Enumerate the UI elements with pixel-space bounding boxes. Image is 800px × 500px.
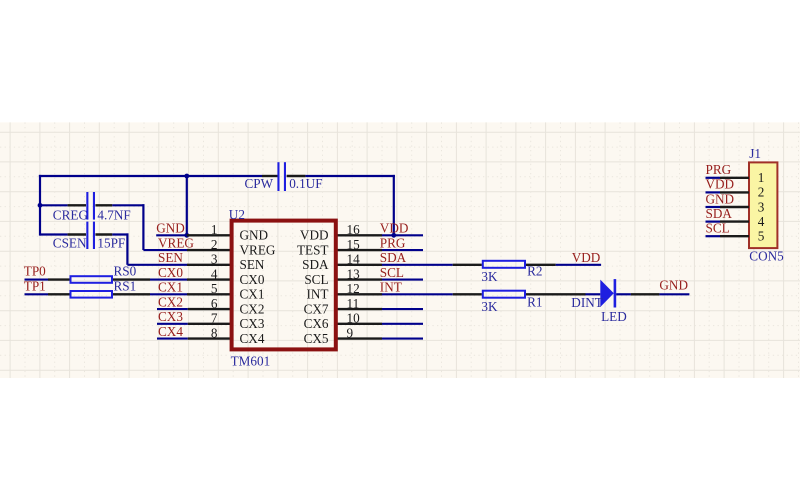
wire right row VDD: [382, 234, 423, 236]
svg-text:15: 15: [347, 237, 361, 252]
wire J1 GND stub: [706, 206, 721, 208]
svg-text:3: 3: [211, 252, 218, 267]
wire CX2 stub: [157, 308, 188, 310]
connector J1 CON5 body: [749, 162, 777, 248]
svg-text:2: 2: [758, 185, 765, 200]
svg-text:CX4: CX4: [240, 331, 265, 346]
svg-text:TP1: TP1: [24, 279, 46, 294]
svg-text:CX2: CX2: [158, 294, 183, 309]
svg-text:1: 1: [758, 170, 765, 185]
svg-text:SCL: SCL: [380, 265, 404, 280]
capacitor CSEN 15PF: [86, 222, 95, 249]
svg-text:VDD: VDD: [572, 250, 601, 265]
svg-text:3K: 3K: [481, 269, 498, 284]
svg-text:GND: GND: [240, 228, 269, 243]
U2 pin names right column: [297, 228, 329, 346]
wire TP1 stub: [25, 293, 49, 295]
svg-text:INT: INT: [307, 287, 329, 302]
wire right row CX5 stub: [382, 337, 423, 339]
svg-text:GND: GND: [706, 191, 735, 206]
svg-text:VDD: VDD: [380, 221, 409, 236]
wire J1 pin 4: [720, 220, 749, 222]
svg-text:RS0: RS0: [114, 264, 137, 279]
wire GND net top-left horizontal: [39, 175, 262, 177]
wire J1 SDA stub: [706, 221, 721, 223]
svg-text:11: 11: [347, 296, 360, 311]
svg-text:6: 6: [211, 296, 218, 311]
wire J1 VDD stub: [706, 191, 721, 193]
svg-text:SEN: SEN: [158, 250, 183, 265]
wire R2 left pin: [453, 264, 482, 266]
junction dot left vertical CREG: [38, 203, 43, 208]
svg-text:TEST: TEST: [297, 242, 329, 257]
svg-text:0.1UF: 0.1UF: [289, 176, 322, 191]
wire J1 PRG stub: [706, 177, 721, 179]
op IC U2 TM601 body: [232, 221, 336, 350]
svg-text:CSEN: CSEN: [53, 235, 87, 250]
wire CREG row left: [40, 204, 68, 206]
svg-text:DINT: DINT: [571, 295, 603, 310]
svg-text:CX0: CX0: [158, 265, 183, 280]
wire CSEN row left: [40, 233, 68, 235]
svg-text:GND: GND: [156, 221, 185, 236]
svg-text:SDA: SDA: [302, 257, 329, 272]
wire RS0 left pin: [48, 278, 70, 280]
wire LED right pin: [631, 293, 660, 295]
wire RS1 left pin: [48, 293, 70, 295]
svg-text:TP0: TP0: [24, 264, 46, 279]
wire VDD net right of R2: [556, 264, 601, 266]
resistor RS0: [71, 276, 113, 283]
svg-text:3K: 3K: [481, 299, 498, 314]
svg-text:GND: GND: [659, 277, 688, 292]
svg-text:13: 13: [347, 266, 361, 281]
wire LED cathode blue: [616, 293, 631, 295]
wire right row CX7 stub: [382, 308, 423, 310]
svg-text:CX0: CX0: [240, 272, 265, 287]
wire J1 pin 1: [720, 177, 749, 179]
U2 left pins 1-8: [187, 235, 231, 338]
svg-text:CX1: CX1: [158, 280, 183, 295]
svg-text:SDA: SDA: [706, 206, 733, 221]
svg-text:SEN: SEN: [240, 257, 265, 272]
resistor R2 3K: [483, 261, 525, 268]
svg-text:VDD: VDD: [300, 228, 329, 243]
wire CX0 net: [150, 278, 188, 280]
svg-text:CON5: CON5: [749, 248, 784, 263]
U2 pin numbers right 16-9: [347, 222, 361, 340]
wire CREG row right: [112, 204, 144, 206]
svg-text:4: 4: [211, 266, 218, 281]
wire CSEN left pin: [68, 233, 86, 235]
wire left vertical: [39, 175, 41, 236]
svg-text:CX3: CX3: [240, 316, 265, 331]
svg-text:CX7: CX7: [304, 301, 329, 316]
svg-text:R1: R1: [527, 294, 542, 309]
sheet background: [0, 122, 800, 378]
svg-text:CX2: CX2: [240, 301, 265, 316]
wire CREG right pin: [95, 204, 112, 206]
svg-text:10: 10: [347, 311, 361, 326]
wire right row CX6 stub: [382, 323, 423, 325]
capacitor CREG 4.7NF: [86, 192, 95, 220]
svg-text:CX5: CX5: [304, 331, 329, 346]
wire J1 pin 5: [720, 235, 749, 237]
wire GND net vertical to pin16: [393, 175, 395, 235]
svg-text:16: 16: [347, 222, 361, 237]
svg-text:CX4: CX4: [158, 324, 183, 339]
wire CREG left pin: [68, 204, 86, 206]
junction dot top wire x=187: [184, 174, 189, 179]
svg-text:7: 7: [211, 311, 218, 326]
wire CPW left pin: [262, 175, 278, 177]
wire RS0 right pin: [113, 278, 150, 280]
svg-text:VREG: VREG: [240, 242, 276, 257]
wire GND net vertical to pin1: [186, 175, 188, 235]
svg-text:15PF: 15PF: [97, 235, 125, 250]
svg-text:4: 4: [758, 214, 765, 229]
svg-text:SCL: SCL: [304, 272, 328, 287]
svg-text:CX3: CX3: [158, 309, 183, 324]
svg-text:RS1: RS1: [114, 279, 137, 294]
wire J1 pin 3: [720, 206, 749, 208]
wire INT net to R1: [382, 293, 453, 295]
wire R2 right pin: [526, 264, 556, 266]
wire SDA net to R2: [382, 264, 453, 266]
junction dot GND pin1: [184, 233, 189, 238]
svg-text:CX6: CX6: [304, 316, 329, 331]
svg-text:12: 12: [347, 281, 360, 296]
wire right row SCL: [382, 278, 423, 280]
svg-text:SDA: SDA: [380, 250, 407, 265]
wire GND net top-right horizontal: [305, 175, 395, 177]
svg-text:PRG: PRG: [380, 235, 406, 250]
svg-text:3: 3: [758, 199, 765, 214]
svg-text:LED: LED: [601, 309, 627, 324]
wire VREG row: [143, 249, 187, 251]
svg-text:J1: J1: [749, 146, 761, 161]
wire vertical CSEN to SEN: [126, 233, 128, 264]
capacitor CPW 0.1UF: [277, 162, 286, 191]
wire J1 SCL stub: [706, 235, 721, 237]
svg-text:R2: R2: [527, 264, 542, 279]
svg-text:VDD: VDD: [706, 177, 735, 192]
J1 pin numbers 1-5: [758, 170, 765, 243]
wire LED anode: [586, 293, 601, 295]
svg-text:2: 2: [211, 237, 218, 252]
U2 right pins 16-9: [337, 235, 382, 338]
wire CX1 net: [150, 293, 188, 295]
wire R1 left pin: [453, 293, 482, 295]
LED diode DINT: [600, 279, 616, 307]
svg-text:CX1: CX1: [240, 287, 265, 302]
wire CPW right pin: [287, 175, 306, 177]
U2 pin names left column: [240, 228, 276, 346]
svg-text:4.7NF: 4.7NF: [97, 208, 130, 223]
wire CSEN right pin: [95, 233, 112, 235]
svg-text:SCL: SCL: [706, 221, 730, 236]
wire R1 right pin: [526, 293, 586, 295]
svg-text:TM601: TM601: [231, 353, 271, 368]
svg-text:CPW: CPW: [245, 176, 274, 191]
wire CX3 stub: [157, 323, 188, 325]
svg-text:5: 5: [211, 281, 218, 296]
wire GND stub: [156, 234, 187, 236]
wire SEN row: [127, 264, 187, 266]
resistor R1 3K: [483, 291, 525, 298]
svg-text:5: 5: [758, 229, 765, 244]
wire CX4 stub: [157, 337, 188, 339]
wire RS1 right pin: [113, 293, 150, 295]
resistor RS1: [71, 291, 113, 298]
wire CSEN row right: [112, 233, 128, 235]
junction dot VDD pin16: [391, 233, 396, 238]
wire GND stub right: [659, 293, 689, 295]
wire vertical CREG to VREG: [142, 204, 144, 250]
svg-text:INT: INT: [380, 280, 402, 295]
svg-text:8: 8: [211, 325, 218, 340]
svg-text:PRG: PRG: [706, 162, 732, 177]
svg-text:CREG: CREG: [53, 208, 89, 223]
wire right row PRG: [382, 249, 423, 251]
wire TP0 stub: [25, 278, 49, 280]
svg-text:9: 9: [347, 325, 354, 340]
wire J1 pin 2: [720, 191, 749, 193]
U2 pin numbers left 1-8: [211, 222, 218, 340]
svg-text:1: 1: [211, 222, 218, 237]
svg-text:U2: U2: [229, 207, 245, 222]
svg-text:14: 14: [347, 252, 361, 267]
svg-text:VREG: VREG: [158, 235, 194, 250]
